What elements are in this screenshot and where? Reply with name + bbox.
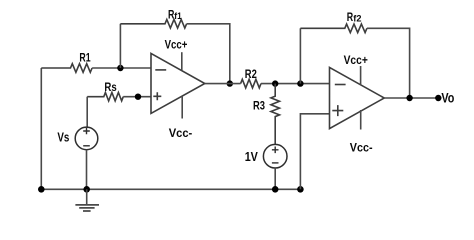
svg-text:Vcc+: Vcc+ xyxy=(165,37,188,51)
svg-text:R1: R1 xyxy=(79,51,90,65)
U1 positive supply pin xyxy=(181,52,183,70)
wire: Rf1 left leg xyxy=(119,24,121,68)
resistor R1 xyxy=(41,64,92,73)
resistor R2 xyxy=(241,79,261,88)
wire: op-amp U2 non-inverting input to ground rail xyxy=(300,114,329,190)
op-amp U1 xyxy=(151,53,205,113)
U1 negative supply pin xyxy=(181,96,183,119)
op-amp U2 xyxy=(330,67,385,128)
wire: Vs to ground rail xyxy=(86,150,88,190)
resistor R3 xyxy=(271,84,280,145)
svg-text:Vo: Vo xyxy=(441,90,454,106)
wire: bottom ground rail xyxy=(41,188,300,190)
wire: U2 output to Vo xyxy=(384,97,438,99)
svg-text:Vcc+: Vcc+ xyxy=(344,53,368,67)
svg-text:Vcc-: Vcc- xyxy=(169,126,193,140)
node: Vs / ground junction xyxy=(83,186,90,193)
svg-text:Rs: Rs xyxy=(104,80,117,94)
node: 1V / ground junction xyxy=(272,186,279,193)
source Vs xyxy=(75,127,98,150)
U2 non-inverting input symbol xyxy=(332,105,343,116)
U2 inverting input symbol xyxy=(335,84,346,86)
U2 positive supply pin xyxy=(360,66,362,85)
resistor Rf2 xyxy=(300,24,367,33)
wire: Rf1 to right leg xyxy=(187,24,230,84)
wire: U1 output to R2 xyxy=(205,83,241,85)
svg-text:1V: 1V xyxy=(245,150,259,164)
wire: R2 to op-amp U2 inverting input xyxy=(261,83,330,85)
resistor Rs xyxy=(87,93,123,101)
node: dot on Rs wire xyxy=(135,94,141,100)
node: Vo terminal xyxy=(435,95,441,101)
node: R2 / R3 junction xyxy=(272,80,278,86)
wire: left vertical rail xyxy=(40,68,42,189)
node: U2 non-inverting leg / ground junction xyxy=(297,186,304,193)
wire: Rs down to source Vs xyxy=(86,97,88,127)
ground xyxy=(86,189,88,204)
svg-text:f2: f2 xyxy=(353,14,361,24)
node: bottom-left corner xyxy=(38,186,45,193)
U1 non-inverting input symbol xyxy=(153,92,161,100)
svg-text:Vcc-: Vcc- xyxy=(350,140,373,154)
svg-text:R2: R2 xyxy=(245,67,257,81)
node: op-amp U1 output / Rf1 junction xyxy=(227,80,233,86)
wire: Rs to op-amp U1 non-inverting input xyxy=(123,96,151,98)
node: Rf2 left leg junction xyxy=(297,80,303,86)
svg-text:R3: R3 xyxy=(253,99,265,113)
node: U2 output / Rf2 junction xyxy=(406,95,412,101)
wire: 1V to ground rail xyxy=(274,168,276,189)
U1 inverting input symbol xyxy=(155,69,166,71)
wire: R1 to op-amp U1 inverting input xyxy=(92,67,151,69)
svg-text:Vs: Vs xyxy=(57,130,69,145)
resistor Rf1 xyxy=(120,20,186,29)
source 1V xyxy=(263,144,287,168)
wire: Rf2 left leg xyxy=(299,28,301,83)
svg-text:f1: f1 xyxy=(174,11,181,21)
wire: Rf2 to right leg xyxy=(367,28,410,98)
node: R1 / Rf1 junction xyxy=(117,65,123,71)
U2 negative supply pin xyxy=(360,110,362,130)
